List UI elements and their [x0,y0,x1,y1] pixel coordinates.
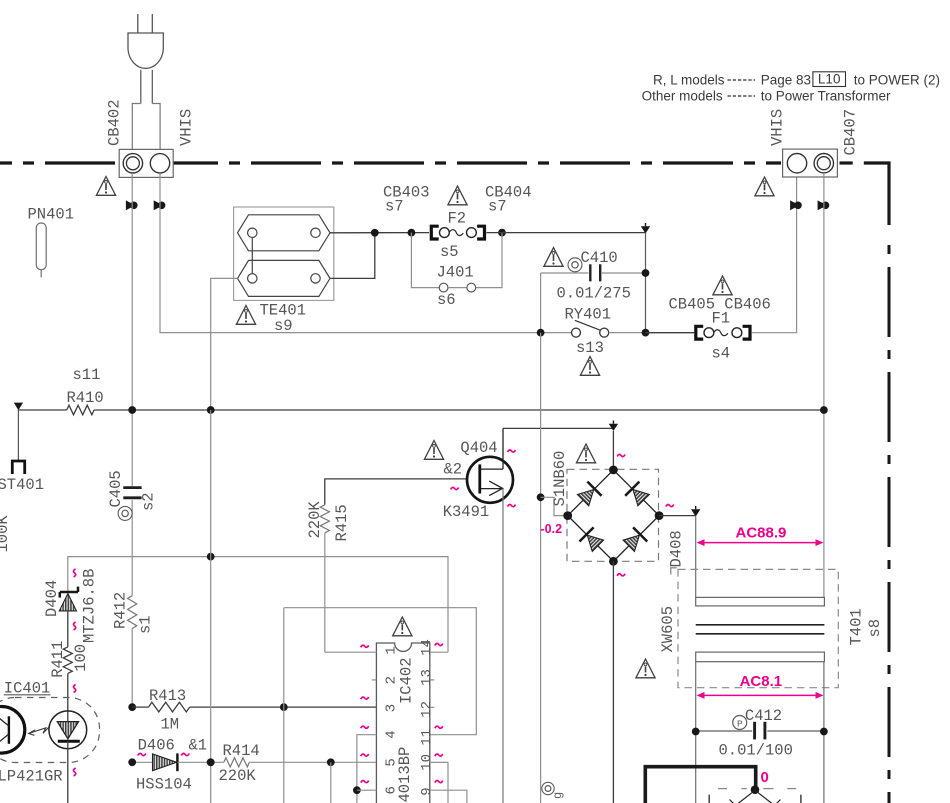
wire pin11 feedback column [284,608,477,803]
stub IC402 pin12 [430,706,435,708]
note Other models to Power Transformer [642,89,891,104]
svg-text:D404: D404 [43,580,61,617]
pin numbers IC402 left [384,646,400,794]
ac mark bridge right [666,505,674,507]
warning symbol near XW605 [636,659,655,678]
capacitor C412 [696,707,824,760]
warning symbol above F2 [448,186,467,205]
warning symbol below CB402 [96,177,115,196]
wire R411 to LED [67,673,69,721]
svg-text:K3491: K3491 [443,503,490,521]
interconnect marker right CB402 wire [154,200,166,210]
svg-text:VHIS: VHIS [769,109,787,146]
warning symbol near Q404 [424,441,443,460]
warning symbol above F1 [713,276,732,295]
svg-text:R, L models: R, L models [653,73,725,88]
svg-text:R415: R415 [333,504,351,541]
wire D406 left [132,761,152,763]
svg-text:R414: R414 [223,742,260,760]
node bridge right [655,511,664,520]
ac mark below D404 [74,622,76,630]
switch TE401 outer box [234,207,334,300]
wire transformer primary left down [695,516,697,598]
node D406 right [207,758,215,766]
fuse F2 [431,210,484,262]
svg-text:PN401: PN401 [28,206,75,224]
svg-text:3: 3 [384,704,400,712]
wire F1 to CB407 pin1 [752,173,797,333]
wire TE401 top output to fuse node [330,232,429,234]
svg-text:C412: C412 [745,707,782,725]
arrow junction above bridge [609,424,618,431]
AC plug [128,14,163,152]
node relay right [642,329,650,337]
node bridge top [609,466,618,475]
label CB404 s7 [485,184,532,216]
jumper J401 bypass loop [411,233,502,309]
wire secondary right down [823,662,825,803]
light arrow of IC401 [29,728,49,736]
svg-text:220K: 220K [219,767,257,785]
warning symbol above IC402 [393,617,412,636]
svg-text:10: 10 [419,754,435,771]
svg-text:s6: s6 [437,291,456,309]
svg-text:s7: s7 [385,198,404,216]
ac mark right of Q404 bottom [508,505,516,507]
wire LED down [67,741,69,803]
svg-text:CB407: CB407 [842,109,860,156]
resistor R415 [306,479,468,652]
ac mark right of Q404 top [508,450,516,452]
svg-text:s4: s4 [712,345,731,363]
svg-text:to Power Transformer: to Power Transformer [761,89,891,104]
svg-text:LP421GR: LP421GR [0,768,63,786]
wire F2 to right node [486,232,645,234]
switch TE401 contact top [238,215,331,251]
svg-text:0: 0 [761,769,769,786]
svg-text:R410: R410 [67,389,104,407]
node C410 right [642,269,650,277]
node R413 right [280,703,288,711]
ac mark below R411 [74,685,76,693]
node bottom bridge top [751,785,760,794]
wire IC402 pin6 [357,789,377,791]
svg-text:0.01/100: 0.01/100 [719,742,793,760]
bridge diode top-right [625,482,651,508]
svg-text:J401: J401 [437,264,474,282]
svg-text:CB402: CB402 [106,99,124,146]
transformer T401 primary winding [696,597,825,606]
svg-text:AC8.1: AC8.1 [740,673,783,690]
connector CB402 [106,99,196,177]
ac mark below gate [451,487,459,489]
interconnect marker CB407 pin1 wire [790,200,802,210]
IC IC402 body [376,643,429,803]
node relay left [537,329,545,337]
zener diode D404 [43,569,99,643]
svg-text:Page 83: Page 83 [761,73,811,88]
node R410-TE401 return [207,406,215,414]
svg-text:Q404: Q404 [460,439,497,457]
wire CB402 pin2 down and right to relay line [160,173,541,333]
isolation barrier dash-dot line (top) [0,163,889,225]
label CB403 s7 [383,184,430,216]
svg-text:4: 4 [384,730,400,738]
note R L models to POWER [653,72,940,88]
interconnect marker CB407 pin2 wire [818,200,830,210]
fuse F1 [646,310,751,363]
svg-text:S1NB60: S1NB60 [551,451,569,507]
pin numbers IC402 right [419,639,435,796]
wire R410 line to right [94,409,824,411]
transformer T401 secondary winding [696,652,825,662]
svg-text:C405: C405 [107,470,125,507]
svg-text:-0.2: -0.2 [541,522,563,536]
ac mark above D404 [74,569,76,577]
switch TE401 contact bottom [238,260,331,296]
node on branch wire [207,553,215,561]
transistor Q404 [443,428,513,521]
bridge diode bottom-right [622,527,648,553]
transformer XW605 dashed outline [678,569,838,687]
svg-text:&1: &1 [189,737,208,755]
node pin6 column [353,786,361,794]
svg-text:XW605: XW605 [659,606,677,653]
arrow junction at transformer feed [691,509,700,516]
svg-text:12: 12 [419,701,435,718]
wire CB407 pin2 down to transformer [823,173,825,597]
wire Q404 drain to bridge [503,427,613,429]
svg-text:0.01/275: 0.01/275 [557,285,631,303]
svg-text:1: 1 [384,646,400,654]
wire zener branch top [68,557,448,653]
svg-text:s1: s1 [136,615,154,634]
svg-text:13: 13 [419,669,435,686]
svg-text:C410: C410 [581,249,618,267]
wire TE401 bottom-left down to node [211,278,238,410]
wire C410 left down [540,273,542,333]
svg-text:IC402: IC402 [397,657,415,704]
resistor R413 [132,687,376,734]
node left of F2 [408,229,416,237]
resistor R410 [18,405,94,415]
svg-text:4013BP: 4013BP [396,747,414,803]
resistor R411 [49,611,90,678]
svg-text:9: 9 [419,787,435,795]
svg-text:VHIS: VHIS [178,109,196,146]
svg-text:s11: s11 [73,366,101,384]
svg-text:R413: R413 [149,687,186,705]
bridge diode top-left [576,482,602,508]
wire CB402 pin1 down [131,173,133,486]
warning symbol below VHIS [755,177,774,196]
svg-text:HSS104: HSS104 [136,776,192,794]
label T401 s8 [848,608,885,645]
diode D406 [136,737,207,794]
svg-text:11: 11 [419,729,435,746]
svg-text:ST401: ST401 [0,476,44,494]
ac mark right of D406 [181,753,189,755]
transformer T401 core [696,625,825,634]
svg-text:R411: R411 [49,641,67,678]
optocoupler IC401 dashed outline [0,698,100,763]
svg-text:s13: s13 [576,339,604,357]
node C412 left [692,728,700,736]
node at TE401 output [371,229,379,237]
bridge diode bottom-left [579,527,605,553]
svg-text:F1: F1 [712,310,731,328]
svg-text:s2: s2 [140,492,158,511]
dimension arrow AC8.1 [697,692,824,699]
svg-text:220K: 220K [306,501,324,539]
lamp PN401 [28,206,75,278]
resistor R414 [219,742,377,785]
wire mains feed down [645,233,647,333]
wire IC402 pin10 [430,762,448,803]
wire IC402 pin9 [430,790,467,803]
wire IC402 pin1 [325,651,377,653]
node R414 right [327,758,335,766]
capacitor C405 [107,470,158,595]
spark gap ST401 [0,410,44,494]
isolation barrier dash-dot line (right) [888,245,891,803]
heavy wire loop bottom [645,767,755,803]
ac mark left of D406 [138,753,146,755]
node R410 right end [820,406,828,414]
label IC401 [4,680,51,698]
svg-text:s8: s8 [866,619,884,638]
svg-text:100: 100 [72,644,90,672]
svg-text:14: 14 [419,639,435,656]
wire IC402 pin14 [430,651,448,653]
warning symbol above bridge [576,444,595,463]
warning symbol TE401 [236,306,255,325]
svg-text:s7: s7 [488,198,507,216]
stub IC402 pin13 [430,679,435,681]
warning symbol below s13 [580,357,599,376]
node x211 D406 line [207,758,215,766]
arrow junction left end of R410 line [14,403,23,411]
svg-text:g: g [551,792,565,799]
rectifier bridge D408 frame [567,469,659,561]
node C412 right [820,728,828,736]
relay switch RY401 [541,320,646,337]
svg-text:Other models: Other models [642,89,723,104]
protection marker g [542,782,565,799]
wire Q404 source down [502,489,504,803]
partial bridge at bottom edge [709,789,801,803]
dimension arrow AC88.9 [697,539,824,546]
svg-text:AC88.9: AC88.9 [736,525,787,542]
svg-text:D408: D408 [668,530,686,567]
node right of F2 [498,229,506,237]
wire TE401 bottom output up to node [330,233,375,279]
svg-text:P: P [737,718,743,729]
warning symbol near C410 [544,248,563,267]
svg-text:&2: &2 [444,461,463,479]
node D406 left [128,758,136,766]
interconnect marker left CB402 wire [126,200,138,210]
resistor R412 [111,592,154,707]
svg-text:100K: 100K [0,515,12,553]
connector CB407 [769,109,860,177]
wire relay node down to bridge [540,333,542,803]
svg-text:MTZJ6.8B: MTZJ6.8B [81,569,99,643]
LED of IC401 [49,711,87,749]
ac mark bridge bottom [617,574,625,576]
wire D406 to R414 [177,761,223,763]
svg-text:1M: 1M [161,716,180,734]
node bridge feed [537,493,545,501]
wire bridge dc+ up [612,431,614,470]
arrow junction top of mains feed [641,226,650,233]
wire node column x211 [210,410,212,803]
svg-text:T401: T401 [848,608,866,645]
wire bridge dc- down [612,561,614,803]
svg-text:F2: F2 [448,210,467,228]
wire bridge ac2 to transformer [659,515,696,517]
ac mark below LED [74,768,76,776]
svg-text:L10: L10 [818,72,841,87]
svg-text:R412: R412 [111,592,129,629]
svg-text:s5: s5 [440,243,459,261]
ac marks IC402 right pins [435,643,443,782]
svg-text:s9: s9 [274,317,293,335]
phototransistor of IC401 [0,707,25,754]
wire IC402 pin4 [357,735,377,803]
stub IC402 pin2 [372,679,377,681]
node bridge bottom [609,557,618,566]
svg-text:RY401: RY401 [565,306,612,324]
node R413 left [128,703,136,711]
node bridge left [563,511,572,520]
node R410-C405 [128,406,136,414]
ac marks IC402 left pins [361,645,369,782]
ac mark bridge top [617,454,625,456]
switch TE401 actuator link [251,238,253,274]
label TE401 s9 [260,302,307,336]
wire R414 node down [330,762,332,803]
wire jog to bridge ac1 [541,497,564,515]
wire secondary left down [695,662,697,803]
svg-text:to POWER (2): to POWER (2) [854,73,940,88]
label D408 with leader [668,530,686,574]
capacitor C410 [541,249,646,303]
svg-text:D406: D406 [138,737,175,755]
